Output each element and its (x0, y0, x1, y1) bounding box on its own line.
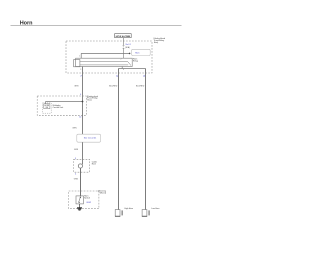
svg-text:3: 3 (80, 69, 81, 71)
wire through under-dash box (82, 96, 84, 134)
svg-text:Box): Box) (154, 42, 158, 44)
svg-text:1: 1 (79, 55, 80, 57)
svg-text:HORN: HORN (44, 105, 50, 107)
svg-text:BLU/RED: BLU/RED (109, 85, 118, 87)
wire switch to ground (79, 204, 81, 208)
relay inner contact line (80, 60, 128, 62)
svg-text:Wheel): Wheel) (100, 192, 107, 194)
svg-text:4: 4 (75, 174, 77, 176)
high horn (142, 207, 160, 216)
svg-text:See Circuit 41: See Circuit 41 (84, 137, 97, 140)
horn switch contacts (80, 197, 81, 198)
relay coil box (74, 60, 80, 67)
svg-text:BLU/RED: BLU/RED (136, 85, 145, 87)
node dot (129, 53, 131, 55)
wire colors (74, 85, 145, 87)
wire below link box (82, 142, 84, 164)
steering wheel box (dashed) (69, 191, 99, 209)
svg-text:High Horn: High Horn (125, 207, 134, 210)
svg-text:4: 4 (123, 69, 124, 71)
horn relay label (133, 59, 138, 63)
wire to high horn (145, 69, 147, 210)
relay output wire coil side (82, 67, 84, 97)
svg-text:10: 10 (79, 117, 82, 119)
ground G502 (77, 208, 82, 210)
MICU dashed boxlet (43, 103, 52, 113)
horn switch box (76, 196, 83, 204)
svg-text:(30 A): (30 A) (125, 46, 130, 49)
branch tee to horns (119, 68, 146, 70)
wire from HOT box to fuse (123, 38, 125, 46)
low horn (115, 207, 133, 216)
svg-text:GRN: GRN (74, 179, 79, 181)
connector pin labels under box (80, 76, 145, 78)
relay switch arm (128, 61, 132, 65)
svg-text:HOT AT ALL TIMES: HOT AT ALL TIMES (116, 35, 131, 38)
relay pin stub 1 (80, 53, 82, 58)
horn switch label (84, 195, 90, 199)
svg-text:GRN: GRN (74, 85, 79, 87)
see circuit link box (77, 134, 101, 142)
cable reel label (92, 161, 98, 165)
svg-text:2: 2 (121, 58, 122, 60)
svg-text:Horn: Horn (135, 52, 139, 54)
fuse No.2-1 (123, 45, 125, 48)
under-dash fuse/relay box (dashed) (37, 96, 86, 115)
under-dash box label (87, 96, 98, 102)
horn relay body (74, 58, 133, 67)
svg-text:Relay: Relay (133, 61, 138, 63)
under-hood box label (153, 38, 165, 44)
svg-text:Low Horn: Low Horn (151, 207, 159, 210)
link box Horn (132, 49, 151, 55)
svg-text:Control Unit: Control Unit (53, 106, 64, 109)
svg-text:GRN: GRN (74, 149, 79, 151)
steering wheel label (98, 190, 106, 195)
wire fuse to bus and relay pin 2 (123, 48, 125, 58)
svg-text:Reel: Reel (92, 164, 97, 166)
under-hood fuse/relay box (dashed) (66, 41, 152, 73)
branch to MICU (46, 101, 83, 103)
svg-text:GRN: GRN (72, 128, 77, 130)
relay output pin contact side (121, 67, 123, 69)
wire to low horn (118, 69, 120, 210)
HOT AT ALL TIMES box (115, 34, 132, 38)
bus wire y53 (81, 52, 129, 54)
wire cable reel to horn switch (80, 168, 82, 196)
MICU label (53, 104, 64, 109)
svg-text:Box): Box) (87, 100, 91, 102)
cable reel circle (78, 164, 82, 168)
cable reel box (dashed) (74, 159, 90, 172)
title rule (11, 25, 182, 27)
MICU solid box (44, 104, 50, 109)
svg-text:Switch: Switch (84, 197, 90, 200)
svg-text:G502: G502 (86, 202, 92, 204)
